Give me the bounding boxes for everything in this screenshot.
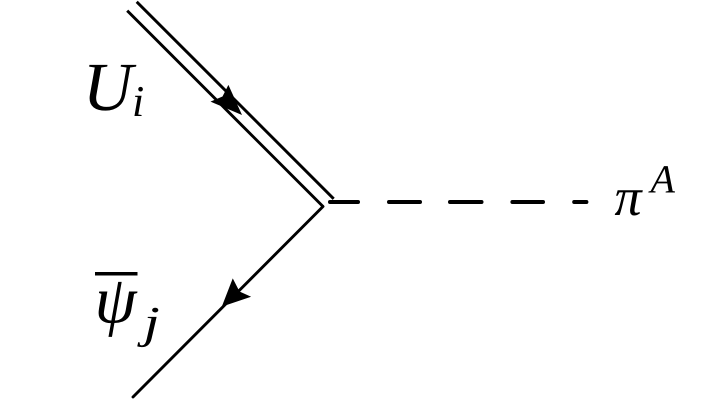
dash 5 (574, 200, 586, 204)
dash 2 (389, 200, 420, 204)
dash 3 (450, 200, 482, 204)
label psi-bar_j : overbar (95, 272, 138, 276)
arrow on U line (points toward vertex) (211, 85, 243, 115)
arrow on psi-bar line (points away from vertex) (222, 278, 251, 306)
label pi^A : pi (615, 190, 643, 215)
wire: dashed scalar pi line, dash 1 (330, 200, 358, 204)
label psi-bar_j : subscript j (137, 308, 158, 347)
label pi^A : superscript A (648, 166, 675, 192)
wire: psi-bar fermion line (133, 207, 323, 398)
wire: double-line U propagator inner line (127, 11, 323, 207)
wire: double-line U propagator outer line (137, 2, 334, 199)
label U_i : U (89, 65, 136, 111)
label psi-bar_j : psi (99, 282, 138, 337)
dash 4 (512, 200, 543, 204)
label U_i : subscript i (134, 87, 142, 116)
